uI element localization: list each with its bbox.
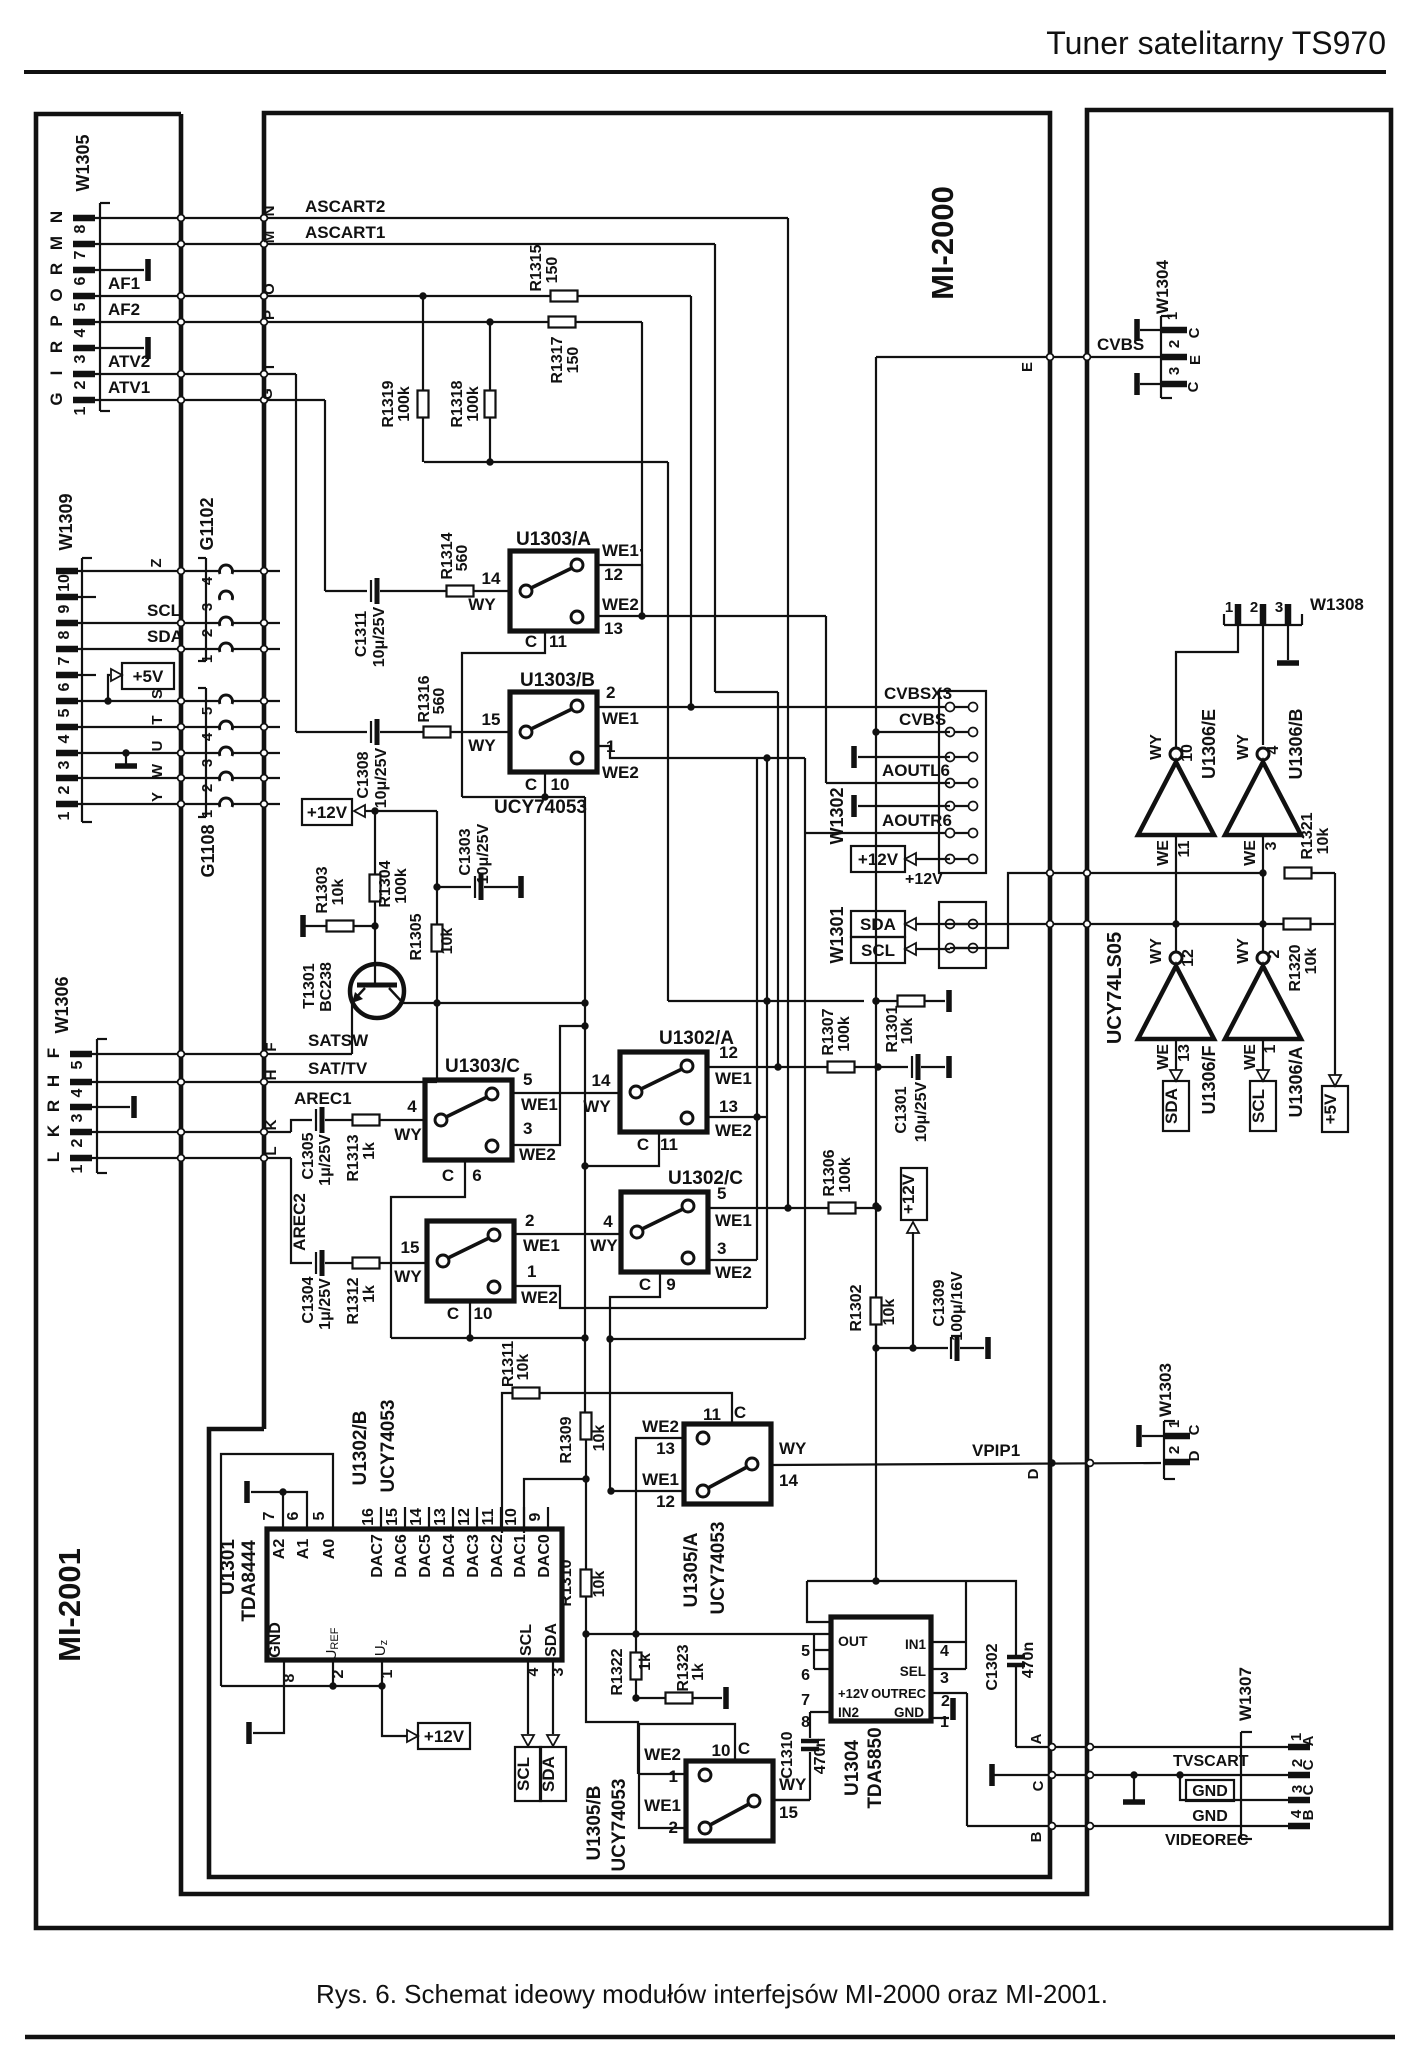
svg-text:14: 14 (482, 569, 501, 588)
svg-text:C1310: C1310 (779, 1731, 796, 1778)
svg-text:4: 4 (603, 1212, 613, 1231)
svg-text:2: 2 (941, 1693, 950, 1710)
svg-text:I: I (47, 371, 66, 376)
W1301 SCL pin pair (950, 947, 973, 949)
svg-text:5: 5 (72, 302, 89, 311)
wire C1305 to R1313 (325, 1119, 353, 1121)
svg-text:L: L (44, 1152, 63, 1162)
svg-text:10: 10 (503, 1508, 520, 1526)
W1309 pin 6 (56, 672, 78, 679)
svg-text:ASCART1: ASCART1 (305, 223, 385, 242)
svg-text:WE: WE (1242, 1044, 1259, 1070)
wire R1313 to U1303/C pin4 (379, 1119, 425, 1121)
W1307 pin1 (1288, 1744, 1310, 1751)
svg-text:2: 2 (606, 683, 615, 702)
ground (851, 795, 857, 817)
W1309 pin 3 (56, 750, 78, 757)
svg-text:R1302: R1302 (848, 1284, 865, 1331)
wire SDA (W1309 pin7) (82, 648, 221, 650)
W1302 pin pair (950, 731, 973, 733)
wire Uz to +12V (382, 1686, 407, 1736)
wire CVBS to W1304 (876, 356, 1161, 358)
connector G1108 (205, 688, 207, 817)
arrow into SDA (905, 918, 916, 930)
op inverter U1306/B (UCY74LS05) (1225, 762, 1301, 835)
svg-text:1: 1 (56, 811, 73, 820)
svg-text:5: 5 (56, 708, 73, 717)
svg-text:O: O (47, 288, 66, 301)
svg-text:C: C (637, 1135, 649, 1154)
W1302 pin pair (950, 706, 973, 708)
wire ASCART1 trunk x=715 (714, 244, 716, 692)
svg-text:G: G (259, 388, 276, 400)
svg-text:MI-2001: MI-2001 (52, 1548, 87, 1662)
svg-text:10k: 10k (515, 1354, 532, 1381)
svg-text:+12V: +12V (307, 803, 348, 822)
svg-text:R1322: R1322 (609, 1648, 626, 1695)
svg-text:3: 3 (56, 760, 73, 769)
wire U1302/A WE1 / R1307 net (707, 1066, 827, 1068)
svg-text:U1306/B: U1306/B (1286, 708, 1306, 779)
wire U1305/A WE1 net (611, 1490, 684, 1492)
svg-text:GND: GND (894, 1705, 924, 1720)
wire IN1 top net y=1581 (807, 1580, 966, 1582)
svg-text:1k: 1k (361, 1142, 378, 1160)
GND stub to W1307 pin3 (1176, 1771, 1183, 1778)
svg-text:R: R (47, 263, 66, 275)
W1301 SDA pin pair (950, 923, 973, 925)
svg-text:16: 16 (360, 1508, 377, 1526)
svg-text:10k: 10k (899, 1018, 916, 1045)
svg-text:10: 10 (1179, 744, 1196, 762)
svg-text:W1302: W1302 (827, 787, 847, 844)
svg-text:E: E (1019, 362, 1036, 372)
op IC U1303/D (UCY74053 switch) (427, 1221, 514, 1301)
svg-text:1: 1 (1225, 599, 1233, 616)
svg-text:Z: Z (148, 558, 165, 567)
svg-text:L: L (263, 1146, 280, 1155)
resistor R1316 560 (424, 727, 451, 738)
ground stub row3 (858, 756, 950, 758)
W1309 pin 10 (56, 568, 78, 575)
svg-text:4: 4 (72, 328, 89, 337)
svg-text:N: N (47, 211, 66, 223)
wire T net (W1309 pin4) (82, 726, 221, 728)
svg-text:C: C (1186, 1424, 1203, 1435)
svg-text:BC238: BC238 (318, 962, 335, 1012)
wire common C net y=1338 (391, 1337, 585, 1339)
svg-text:2: 2 (69, 1138, 86, 1147)
W1309 pin 1 (56, 801, 78, 808)
svg-text:+12V: +12V (899, 1173, 918, 1214)
wire ASCART2 / net N (W1305 pin8) (100, 217, 788, 219)
capacitor C1301 10u/25V (878, 1066, 908, 1068)
resistor R1323 1k (666, 1693, 693, 1704)
wire U1305/A C pin (731, 1412, 733, 1424)
svg-text:C1301: C1301 (893, 1086, 910, 1133)
wire U1302/C WE1 / R1306 net (708, 1207, 829, 1209)
op IC U1302/C (UCY74053 switch) (621, 1192, 708, 1272)
op IC U1302/A (UCY74053 switch) (620, 1052, 707, 1132)
node R1309 bottom (582, 1475, 589, 1482)
svg-text:470n: 470n (812, 1738, 829, 1774)
svg-text:C: C (639, 1275, 651, 1294)
arrow into +12V (907, 1222, 919, 1233)
wire AF bus drop x=668 (667, 462, 669, 1001)
wire C line (994, 1774, 1288, 1776)
svg-text:11: 11 (1176, 840, 1193, 857)
svg-text:7: 7 (72, 250, 89, 259)
svg-text:CVBSX3: CVBSX3 (884, 684, 952, 703)
node AF1 joins CVBSX3 net (687, 703, 694, 710)
svg-text:WE2: WE2 (519, 1145, 556, 1164)
svg-text:U1306/E: U1306/E (1199, 709, 1219, 779)
svg-text:H: H (44, 1075, 63, 1087)
W1307 pin2 (1288, 1772, 1310, 1779)
W1305 pin3 ground stub (100, 347, 144, 349)
svg-text:2: 2 (199, 784, 216, 792)
svg-text:8: 8 (281, 1673, 298, 1682)
module MI-2000 outline (209, 113, 1050, 1877)
W1306 pin 2 (K) (70, 1129, 92, 1136)
arrow into +5V box (1329, 1075, 1341, 1086)
wire IN1/SEL riser (965, 1581, 967, 1669)
svg-text:H: H (263, 1070, 280, 1081)
node +12V feed (371, 807, 378, 814)
W1306 pin 5 (F) (70, 1051, 92, 1058)
capacitor C1305 1u/25V (315, 1109, 317, 1131)
ground tap on U net (122, 749, 129, 756)
wire U1302/A WE2 net (707, 1116, 768, 1118)
resistor R1312 1k (353, 1258, 380, 1269)
svg-text:U1302/B: U1302/B (350, 1411, 371, 1486)
wire DAC1 feedback y=1479 (524, 1479, 586, 1533)
wire VPIP1 (771, 1463, 1161, 1465)
W1308 pin1 (1235, 604, 1242, 625)
svg-text:A: A (1028, 1733, 1045, 1744)
svg-text:10k: 10k (1303, 948, 1320, 975)
op IC U1303/C (UCY74053 switch) (425, 1080, 512, 1160)
svg-text:1: 1 (379, 1669, 396, 1678)
wire Uref/Uz rail (221, 1685, 382, 1687)
svg-text:TDA5850: TDA5850 (865, 1727, 886, 1808)
svg-text:G1108: G1108 (198, 824, 218, 877)
op IC U1305/B (UCY74053 switch) (686, 1761, 773, 1841)
wire U1303/B pin C/10 stub (544, 771, 546, 797)
svg-text:N: N (261, 206, 278, 217)
W1307 pin4 (1288, 1823, 1310, 1830)
wire AF1 right of R1315 (577, 295, 691, 297)
svg-text:150: 150 (565, 347, 582, 374)
svg-text:8: 8 (56, 630, 73, 639)
svg-text:U1303/C: U1303/C (445, 1056, 520, 1077)
resistor R1311 10k (502, 1393, 513, 1533)
svg-text:1μ/25V: 1μ/25V (317, 1134, 334, 1186)
wire U1305/B WY to C1310 (772, 1799, 810, 1801)
wire U1303/D pin C/10 stub (469, 1301, 471, 1338)
svg-text:10k: 10k (330, 879, 347, 906)
svg-text:+12V: +12V (424, 1727, 465, 1746)
svg-text:R1303: R1303 (314, 866, 331, 913)
svg-text:12: 12 (1180, 949, 1197, 967)
wire U1305/B WE2 net (638, 1773, 686, 1775)
resistor R1322 1k (vertical) (631, 1653, 642, 1680)
svg-text:9: 9 (527, 1512, 544, 1521)
svg-text:1μ/25V: 1μ/25V (317, 1278, 334, 1330)
svg-text:WE2: WE2 (644, 1745, 681, 1764)
ground (246, 1722, 252, 1744)
svg-text:R1304: R1304 (377, 860, 394, 907)
wire U1305/B WE1 net (639, 1724, 686, 1828)
svg-text:15: 15 (779, 1803, 798, 1822)
svg-text:1: 1 (1262, 1044, 1279, 1053)
W1305 pin 7 (M) (73, 241, 95, 248)
svg-text:W1306: W1306 (52, 976, 72, 1033)
resistor R1304 100k (vertical) (374, 811, 376, 875)
wire A2/A1 ground net (283, 1492, 307, 1529)
svg-text:7: 7 (801, 1692, 810, 1709)
svg-text:C: C (1185, 381, 1202, 392)
ground (946, 990, 952, 1012)
W1304 pin2 (1161, 354, 1187, 361)
svg-text:M: M (47, 236, 66, 250)
resistor R1320 10k (1284, 919, 1311, 930)
svg-text:WE: WE (1242, 840, 1259, 866)
connector W1307 (1240, 1732, 1242, 1839)
wire AF1 trunk x=691 (690, 296, 692, 707)
ground tap on C line (1130, 1771, 1137, 1778)
top rule (24, 70, 1386, 74)
svg-text:4: 4 (1265, 745, 1282, 754)
svg-text:5: 5 (717, 1184, 726, 1203)
svg-text:5: 5 (69, 1060, 86, 1069)
W1309 pin 7 (56, 646, 78, 653)
W1303 pin1 (1164, 1433, 1190, 1440)
wire C1311 to R1314 (380, 590, 448, 592)
ground (145, 337, 151, 359)
svg-text:M: M (261, 231, 278, 244)
svg-text:10μ/25V: 10μ/25V (373, 747, 390, 808)
svg-text:560: 560 (454, 545, 471, 572)
svg-text:D: D (1025, 1468, 1042, 1479)
wire U1302/C pin C/9 stub (610, 1271, 660, 1491)
ground (131, 1096, 137, 1118)
wire +12V bus (375, 810, 437, 812)
svg-text:WE1: WE1 (715, 1211, 752, 1230)
svg-text:AREC2: AREC2 (290, 1193, 309, 1251)
W1304 pin1 (1161, 327, 1187, 334)
svg-text:+12V: +12V (838, 1686, 869, 1701)
svg-text:MI-2000: MI-2000 (925, 186, 960, 300)
svg-text:14: 14 (408, 1508, 425, 1526)
wire U1302/C WE2 net (708, 1259, 757, 1261)
svg-text:2: 2 (1250, 599, 1258, 616)
op IC U1305/A (UCY74053 switch) (684, 1424, 771, 1504)
svg-text:UCY74053: UCY74053 (609, 1779, 630, 1872)
svg-text:3: 3 (523, 1119, 532, 1138)
svg-text:470n: 470n (1020, 1642, 1037, 1678)
svg-text:OUTREC: OUTREC (871, 1686, 927, 1701)
svg-text:10k: 10k (881, 1299, 898, 1326)
wire U1306/F output arrow (1175, 1039, 1177, 1070)
svg-text:10: 10 (56, 574, 73, 592)
svg-text:W1304: W1304 (1153, 260, 1172, 314)
wire R1301 to ground (924, 1000, 945, 1002)
ground (1277, 660, 1299, 666)
svg-text:7: 7 (56, 656, 73, 665)
svg-text:W1307: W1307 (1236, 1667, 1255, 1721)
svg-text:4: 4 (199, 732, 216, 741)
svg-text:+5V: +5V (133, 667, 164, 686)
wire +5V rail down (1334, 924, 1336, 1075)
svg-text:U1302/C: U1302/C (668, 1168, 743, 1189)
svg-text:P: P (47, 315, 66, 326)
wire R1311 to U1305/A C pin (539, 1393, 732, 1412)
svg-text:WY: WY (468, 595, 496, 614)
wire AF load bus y=462 (424, 461, 668, 463)
W1309 pin 5 (56, 698, 78, 705)
svg-text:WE2: WE2 (642, 1417, 679, 1436)
wire AF2 trunk x=642 (641, 322, 643, 616)
wire SCL (W1309 pin8) (82, 622, 221, 624)
svg-text:WY: WY (1235, 938, 1252, 964)
svg-text:W1305: W1305 (73, 134, 93, 191)
wire W1308 pin3 ground (1287, 625, 1289, 660)
svg-text:U1304: U1304 (842, 1740, 863, 1796)
W1306 pin3 ground stub (97, 1106, 130, 1108)
svg-text:R1313: R1313 (345, 1134, 362, 1181)
W1309 pin 4 (56, 724, 78, 731)
svg-text:SCL: SCL (518, 1624, 535, 1656)
svg-text:U1303/B: U1303/B (520, 670, 595, 691)
wire U1306/A output arrow (1262, 1039, 1264, 1070)
wire AOUTL6 drop (825, 616, 827, 783)
svg-text:WE2: WE2 (715, 1121, 752, 1140)
power +5V box (122, 663, 174, 689)
wire W1308 pin2 to U1306/B (1262, 625, 1264, 745)
svg-text:3: 3 (717, 1239, 726, 1258)
svg-text:15: 15 (401, 1238, 420, 1257)
wire U1303/B WE2 pin1 / AOUTR6 net (597, 746, 805, 758)
svg-text:C: C (1300, 1759, 1317, 1770)
wire AOUTR6 drop (804, 758, 806, 833)
svg-text:R1315: R1315 (528, 244, 545, 291)
wire ATV2 / net I (W1305 pin2) (100, 373, 296, 375)
node R1322/R1323 (632, 1694, 639, 1701)
wire U1303/A WE1 pin12 jog (597, 565, 642, 616)
wire U1303/D WE1 to U1302/C WY (514, 1233, 621, 1235)
svg-text:12: 12 (719, 1043, 738, 1062)
wire +12V rail y=1348 (875, 1325, 877, 1348)
svg-text:C: C (738, 1739, 750, 1758)
svg-text:5: 5 (311, 1511, 328, 1520)
svg-text:11: 11 (480, 1508, 497, 1525)
W1309 pin6 stub (82, 674, 96, 676)
svg-text:DAC4: DAC4 (441, 1534, 458, 1578)
svg-text:8: 8 (72, 224, 89, 233)
svg-text:TVSCART: TVSCART (1173, 1753, 1249, 1770)
svg-text:12: 12 (656, 1492, 675, 1511)
svg-text:WE2: WE2 (521, 1288, 558, 1307)
svg-text:3: 3 (1263, 841, 1280, 850)
svg-text:SDA: SDA (543, 1623, 560, 1657)
op inverter U1306/E (UCY74LS05) (1138, 762, 1214, 835)
svg-text:11: 11 (660, 1135, 678, 1154)
svg-text:4: 4 (525, 1667, 542, 1676)
svg-text:Tuner satelitarny TS970: Tuner satelitarny TS970 (1046, 25, 1386, 61)
svg-text:C1308: C1308 (355, 751, 372, 798)
svg-text:K: K (44, 1124, 63, 1137)
svg-text:F: F (44, 1048, 63, 1058)
wire U1305/A WE2 net (636, 1438, 684, 1634)
W1304 pin3 ground (1140, 383, 1161, 385)
W1305 pin 6 (R) (73, 267, 95, 274)
W1305 pin 4 (P) (73, 319, 95, 326)
label box SCL (851, 937, 905, 963)
wire link y=1339 (610, 1338, 805, 1340)
svg-text:TDA8444: TDA8444 (239, 1540, 260, 1622)
svg-text:WY: WY (394, 1125, 422, 1144)
svg-text:3: 3 (69, 1113, 86, 1122)
svg-text:C: C (525, 775, 537, 794)
svg-text:1: 1 (669, 1767, 678, 1786)
U1301 SCL pin4 (527, 1660, 529, 1734)
svg-text:SAT/TV: SAT/TV (308, 1059, 368, 1078)
node junction R1318 top (486, 318, 493, 325)
wire net K (AREC1) (97, 1131, 291, 1133)
svg-text:Y: Y (149, 792, 166, 802)
resistor R1318 100k (vertical) (489, 322, 491, 391)
wire C1309 to ground (960, 1347, 984, 1349)
node AF2 joins WE2 net (638, 612, 645, 619)
svg-text:C: C (1186, 327, 1203, 338)
svg-text:1: 1 (199, 810, 216, 818)
svg-text:C1304: C1304 (300, 1276, 317, 1323)
svg-text:GND: GND (1192, 1808, 1228, 1825)
svg-text:R: R (44, 1100, 63, 1112)
svg-text:R1309: R1309 (558, 1416, 575, 1463)
svg-text:WY: WY (394, 1267, 422, 1286)
wire SCL jog (950, 873, 1087, 948)
W1302 pin pair (950, 858, 973, 860)
wire branch x=805 down (804, 833, 806, 1339)
svg-text:13: 13 (604, 619, 623, 638)
ground (989, 1764, 995, 1786)
wire R1320 to +5V rail (1310, 923, 1335, 925)
svg-text:10: 10 (712, 1741, 731, 1760)
svg-text:SCL: SCL (147, 601, 181, 620)
wire U1303/D WE2 net (514, 1286, 767, 1308)
svg-text:100k: 100k (396, 386, 413, 422)
svg-text:C: C (525, 632, 537, 651)
svg-text:GND: GND (1192, 1783, 1228, 1800)
svg-text:DAC7: DAC7 (369, 1534, 386, 1578)
svg-text:WY: WY (583, 1097, 611, 1116)
resistor R1310 10k (vertical) (585, 1479, 587, 1570)
svg-text:12: 12 (456, 1508, 473, 1526)
svg-text:K: K (263, 1119, 280, 1130)
svg-text:13: 13 (719, 1097, 738, 1116)
wire WE2 tie vertical (756, 758, 758, 1260)
svg-text:3: 3 (1275, 599, 1283, 616)
svg-text:A2: A2 (271, 1539, 288, 1560)
resistor R1321 10k (1285, 868, 1312, 879)
svg-text:IN2: IN2 (838, 1705, 859, 1720)
svg-text:WY: WY (1148, 938, 1165, 964)
svg-text:R1318: R1318 (449, 380, 466, 427)
svg-text:WE1: WE1 (644, 1796, 681, 1815)
op IC U1303/A (UCY74053 switch) (510, 551, 597, 631)
